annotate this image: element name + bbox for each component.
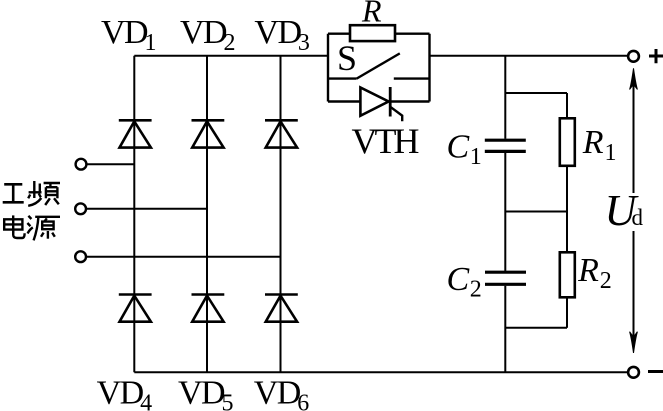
diode VD2 — [192, 120, 225, 147]
wire R2 lower lead — [566, 297, 568, 328]
resistor R1 — [560, 118, 575, 166]
label R1 — [582, 124, 617, 166]
label VD2 — [180, 14, 236, 56]
wire phase A — [87, 163, 135, 165]
svg-text:2: 2 — [600, 268, 612, 294]
svg-text:VD: VD — [254, 14, 301, 51]
svg-text:C: C — [447, 261, 470, 298]
wire mid junction — [505, 211, 567, 213]
wire R1 lower lead — [566, 166, 568, 212]
wire R2 upper lead — [566, 212, 568, 253]
label C1 — [447, 129, 482, 170]
wire column 3 (VD3/VD6 leg) — [280, 56, 282, 373]
plus sign — [649, 49, 663, 63]
switch S — [328, 53, 430, 78]
diode VD5 — [192, 295, 225, 322]
svg-text:1: 1 — [470, 144, 482, 170]
svg-text:1: 1 — [145, 30, 157, 56]
svg-text:R: R — [361, 0, 382, 28]
resistor R2 — [560, 252, 575, 297]
wire filter column — [504, 56, 506, 373]
svg-text:6: 6 — [297, 391, 309, 411]
minus sign — [648, 370, 663, 373]
wire R1 upper lead — [566, 93, 568, 118]
diode VD3 — [265, 120, 298, 147]
soft-start box right rail — [428, 34, 430, 102]
capacitor C1 — [485, 140, 526, 151]
resistor R — [350, 25, 395, 41]
svg-text:2: 2 — [470, 276, 482, 302]
diode VD6 — [265, 295, 298, 322]
terminal phase C circle — [75, 251, 86, 262]
label VD6 — [254, 375, 310, 411]
svg-text:VTH: VTH — [352, 121, 419, 161]
svg-text:3: 3 — [298, 30, 310, 56]
diode VD1 — [119, 120, 152, 147]
wire bottom branch — [505, 327, 567, 329]
svg-text:VD: VD — [178, 375, 225, 411]
svg-text:S: S — [337, 38, 357, 78]
label gongpin dianyuan (Chinese: power-frequency source) — [3, 181, 60, 240]
wire column 2 (VD2/VD5 leg) — [206, 56, 208, 373]
svg-text:VD: VD — [101, 14, 148, 51]
wire phase C — [86, 256, 280, 258]
wire top bus left (rectifier top to S box) — [134, 55, 328, 57]
label C2 — [447, 261, 482, 302]
capacitor C2 — [485, 272, 526, 284]
char dian — [4, 215, 24, 238]
svg-text:5: 5 — [222, 391, 234, 411]
label VD3 — [254, 14, 310, 56]
svg-text:4: 4 — [140, 391, 152, 411]
wire phase B — [86, 208, 207, 210]
label R2 — [577, 252, 612, 294]
label VD5 — [178, 375, 234, 411]
thyristor VTH — [328, 87, 430, 121]
wire R1 top branch — [505, 92, 567, 94]
terminal - circle — [628, 367, 639, 378]
char gong — [3, 184, 24, 202]
svg-text:C: C — [447, 129, 470, 166]
char yuan — [27, 216, 60, 241]
soft-start box left rail — [327, 34, 329, 102]
label VD4 — [97, 375, 153, 411]
wire box top edge — [328, 33, 430, 35]
svg-text:2: 2 — [224, 30, 236, 56]
terminal + circle — [628, 51, 639, 62]
wire column 1 (VD1/VD4 leg) — [133, 56, 135, 373]
Ud arrow — [630, 68, 638, 353]
wire bottom bus — [134, 371, 628, 373]
label Ud — [605, 186, 644, 235]
label VD1 — [101, 14, 157, 56]
svg-text:VD: VD — [254, 375, 301, 411]
terminal phase B circle — [75, 203, 86, 214]
svg-text:VD: VD — [180, 14, 227, 51]
svg-text:1: 1 — [605, 140, 617, 166]
char pin — [28, 181, 60, 206]
terminal phase A circle — [76, 159, 87, 170]
wire top bus right (S box to + terminal) — [430, 55, 629, 57]
svg-text:d: d — [632, 205, 644, 230]
diode VD4 — [119, 295, 152, 322]
svg-text:VD: VD — [97, 375, 144, 411]
svg-text:R: R — [582, 124, 604, 161]
svg-text:R: R — [577, 252, 599, 289]
